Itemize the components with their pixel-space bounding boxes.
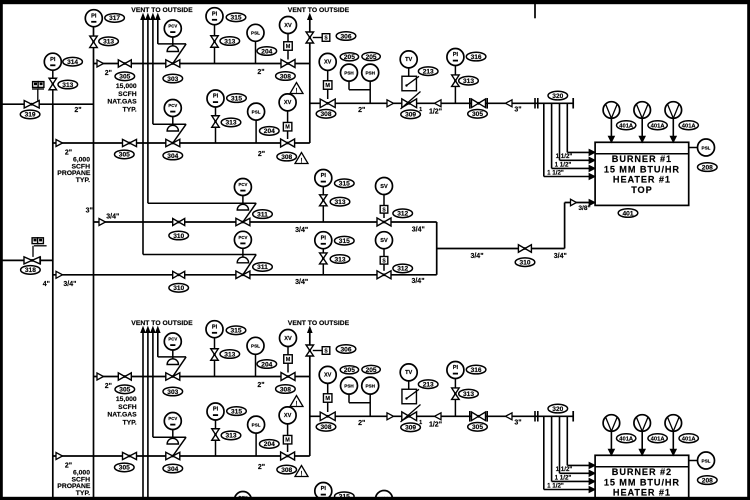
svg-text:312: 312 (397, 266, 408, 273)
tag 308 (line 1) (276, 72, 296, 81)
svg-text:401A: 401A (651, 124, 666, 130)
label 3/4 inch (middle 1 right) (412, 226, 425, 233)
valve XV 308 (combined) (319, 53, 336, 107)
wire middle line 2 (3/4 inch) (53, 274, 437, 276)
svg-text:401A: 401A (682, 124, 697, 130)
svg-text:304: 304 (167, 153, 178, 160)
instrument PI (line 2) (207, 90, 224, 116)
vent valve 306 (306, 32, 356, 43)
wire line 1 (2 inch nat gas) (94, 63, 310, 65)
label 3 inch (514, 107, 521, 114)
tag 204 (line 1) (257, 47, 277, 56)
tag 313 (below PI 314) (58, 80, 78, 89)
svg-text:310: 310 (173, 285, 184, 292)
svg-text:306: 306 (340, 33, 351, 40)
svg-text:VENT TO OUTSIDE: VENT TO OUTSIDE (131, 7, 193, 14)
svg-text:204: 204 (261, 48, 272, 55)
svg-text:15 MM BTU/HR: 15 MM BTU/HR (604, 477, 680, 487)
valve 313 (line 1) (211, 36, 219, 64)
label 3/8 inch (578, 205, 590, 212)
burner U401 text (BURNER #2) (604, 467, 680, 500)
text VENT TO OUTSIDE (riser) (288, 7, 350, 14)
warning triangle (line 1) (290, 83, 303, 95)
svg-text:SV: SV (380, 238, 388, 244)
control valve PCV 311 (upper) (148, 179, 256, 226)
tag 401A (2) (648, 121, 667, 130)
valve XV 308 (line 2) (279, 94, 296, 147)
flow arrow combined (387, 100, 394, 107)
control valve 319 (24, 82, 44, 108)
valve 305 (line 1) (118, 60, 131, 67)
instrument PI (middle lower) (315, 232, 332, 253)
flow arrow middle line 1 (99, 219, 106, 226)
tag 205 (left) (340, 53, 358, 61)
flow arrow line 2 (56, 140, 63, 147)
label 3 inch (header B) (86, 208, 93, 215)
vertical header A (4 inch) (52, 104, 54, 497)
svg-text:305: 305 (119, 74, 130, 81)
svg-text:PI: PI (213, 94, 219, 100)
svg-text:BURNER #2: BURNER #2 (612, 467, 672, 477)
instrument PSL 208 (689, 139, 715, 156)
svg-text:2": 2" (258, 151, 265, 158)
manifold drop 3 (560, 103, 596, 163)
burner U401 text (BURNER #1) (604, 154, 680, 195)
svg-text:2": 2" (65, 150, 72, 157)
svg-text:308: 308 (280, 73, 291, 80)
vent line 3 (152, 20, 154, 125)
spec break ticks (535, 98, 538, 109)
svg-text:313: 313 (334, 256, 345, 263)
svg-text:315: 315 (230, 15, 241, 22)
svg-text:313: 313 (463, 78, 474, 85)
instrument PI 316 (447, 49, 464, 76)
wire pilot riser 3/8 inch (565, 203, 590, 249)
label 2 inch (line 1) (105, 70, 112, 77)
tag 308 (combined) (316, 110, 336, 119)
svg-text:316: 316 (471, 54, 482, 61)
valve 313 (middle upper) (320, 195, 328, 222)
label 3/4 inch (middle 1 mid) (295, 227, 308, 234)
svg-text:310: 310 (519, 260, 530, 267)
svg-text:TYP.: TYP. (122, 106, 136, 113)
manifold drop 4 (567, 103, 595, 155)
tag 312 (lower) (393, 264, 413, 273)
tag 318 (21, 266, 41, 275)
svg-text:208: 208 (702, 164, 713, 171)
svg-text:XV: XV (324, 60, 332, 66)
labels 1 1/2 inch (547, 153, 572, 176)
tag 315 (line 1) (226, 13, 246, 22)
svg-text:HEATER #1: HEATER #1 (613, 175, 671, 185)
tag 319 (20, 110, 40, 119)
svg-text:M: M (325, 83, 330, 89)
svg-text:315: 315 (339, 181, 350, 188)
svg-text:NAT.GAS: NAT.GAS (107, 99, 137, 106)
instrument PI (middle upper) (315, 170, 332, 195)
svg-text:3/4": 3/4" (106, 214, 119, 221)
text VENT TO OUTSIDE (left vent stack) (131, 7, 193, 14)
svg-text:319: 319 (25, 112, 36, 119)
tag 305 (line 2) (115, 150, 135, 159)
valve 309 (401, 92, 421, 110)
note 6,000 SCFH PROPANE TYP. (57, 157, 91, 184)
valve 310 (outlet) (518, 245, 531, 253)
svg-text:PI: PI (91, 13, 97, 19)
tag 314 (63, 57, 83, 66)
control valve PCV 311 (lower) (143, 231, 256, 278)
instrument PSH (left) (341, 64, 371, 90)
svg-text:3/4": 3/4" (295, 279, 308, 286)
svg-text:PSL: PSL (702, 145, 711, 150)
control valve PCV 304 (153, 100, 186, 147)
svg-text:2": 2" (74, 107, 81, 114)
label 2 inch (combined) (358, 107, 365, 114)
tag 305 (combined) (468, 110, 488, 119)
svg-text:SV: SV (380, 184, 388, 190)
label 2 inch (line 2 right) (258, 151, 265, 158)
flow arrow pilot (571, 199, 577, 206)
tag 310 (outlet) (515, 258, 535, 267)
svg-text:PI: PI (453, 52, 459, 58)
vent line arrows (141, 14, 160, 20)
flame arrestor 3 (665, 102, 682, 143)
label 1/2 inch (429, 109, 442, 116)
vent line 1 (142, 20, 144, 255)
tag 401A (1) (617, 121, 636, 130)
valve 310 (middle 1) (173, 219, 185, 226)
tag 311 (upper) (253, 210, 273, 219)
svg-text:PCV: PCV (238, 235, 247, 240)
wire middle join (436, 222, 438, 275)
tag 315 (middle upper) (335, 179, 355, 188)
tag 313 (below PI 317) (99, 37, 119, 46)
svg-text:310: 310 (173, 233, 184, 240)
wire middle outlet (437, 248, 565, 250)
wire line 2 (2 inch propane) (53, 142, 310, 144)
label 2 inch (line 1 right) (257, 69, 264, 76)
svg-text:15 MM BTU/HR: 15 MM BTU/HR (604, 164, 680, 174)
svg-text:TYP.: TYP. (76, 177, 90, 184)
tag 401 (618, 209, 638, 218)
pilot arrow into burner (589, 200, 595, 206)
instrument PSL 204 (line 1) (247, 24, 264, 63)
svg-text:BURNER #1: BURNER #1 (612, 154, 672, 164)
valve 313 (combined) (452, 75, 460, 103)
flow arrow (after 309) (435, 100, 442, 107)
svg-text:3/4": 3/4" (412, 226, 425, 233)
svg-text:309: 309 (405, 112, 416, 119)
svg-text:311: 311 (257, 211, 268, 218)
svg-text:1: 1 (419, 107, 422, 113)
svg-text:PSH: PSH (344, 70, 354, 75)
wire middle line 1 (3/4 inch) (94, 221, 437, 223)
svg-text:PI: PI (212, 11, 218, 17)
label 2 inch (line 2) (65, 150, 72, 157)
svg-text:2": 2" (257, 69, 264, 76)
svg-text:3/4": 3/4" (470, 253, 483, 260)
svg-text:!: ! (301, 158, 303, 164)
svg-text:PCV: PCV (238, 182, 247, 187)
svg-text:308: 308 (281, 154, 292, 161)
svg-text:314: 314 (67, 59, 78, 66)
svg-text:311: 311 (257, 264, 268, 271)
tag 315 (line 2) (227, 94, 247, 103)
svg-text:401: 401 (622, 210, 633, 217)
svg-text:PI: PI (50, 57, 56, 63)
svg-text:M: M (286, 44, 291, 50)
label 3/4 inch (middle 2 left) (63, 281, 76, 288)
valve 313 (below PI 317) (90, 36, 98, 48)
vent line 2 (147, 20, 149, 204)
instrument PI (line 1) (206, 8, 223, 36)
svg-text:PSH: PSH (365, 70, 375, 75)
tag 305 (line 1) (115, 72, 135, 81)
svg-text:PI: PI (321, 173, 327, 179)
instrument PI 317 (85, 10, 102, 27)
svg-text:205: 205 (366, 54, 377, 61)
svg-text:205: 205 (344, 54, 355, 61)
svg-text:PSL: PSL (251, 31, 260, 36)
svg-text:2": 2" (105, 70, 112, 77)
vertical header B (3 inch) (93, 27, 95, 497)
svg-text:305: 305 (119, 152, 130, 159)
label 3/4 inch (middle 2 mid) (295, 279, 308, 286)
svg-text:1 1/2": 1 1/2" (547, 169, 564, 176)
svg-text:1 1/2": 1 1/2" (555, 161, 572, 168)
tag 304 (163, 151, 183, 160)
svg-text:313: 313 (334, 199, 345, 206)
svg-text:1/2": 1/2" (429, 109, 442, 116)
flow arrow middle line 2 (56, 271, 63, 278)
svg-text:PCV: PCV (168, 24, 177, 29)
svg-text:3/4": 3/4" (554, 253, 567, 260)
svg-text:PCV: PCV (168, 103, 177, 108)
gas train 2 (heater 2, duplicate shifted down) (53, 320, 717, 500)
svg-text:401A: 401A (619, 124, 634, 130)
svg-text:!: ! (296, 88, 298, 94)
label 3/4 inch (middle 2 right) (411, 278, 424, 285)
tag 313 (middle upper) (330, 197, 350, 206)
flame arrestor 2 (634, 102, 651, 143)
svg-text:204: 204 (264, 128, 275, 135)
instrument PSH (right) (362, 64, 379, 103)
tag 317 (105, 14, 125, 23)
manifold drop 1 (544, 103, 595, 179)
svg-text:VENT TO OUTSIDE: VENT TO OUTSIDE (288, 7, 350, 14)
valve SV 312 (upper) (376, 178, 393, 227)
svg-text:320: 320 (552, 93, 563, 100)
label 4 inch (header A) (43, 281, 50, 288)
tag 308 (line 2) (277, 152, 297, 161)
svg-text:313: 313 (103, 39, 114, 46)
svg-text:3": 3" (86, 208, 93, 215)
tag 204 (line 2) (260, 127, 280, 136)
svg-text:213: 213 (423, 69, 434, 76)
tag 311 (lower) (253, 263, 273, 272)
control valve PCV 303 (158, 20, 186, 67)
tag 313 (line 1) (220, 37, 240, 46)
instrument PSL 204 (line 2) (248, 103, 265, 143)
vent riser (308, 14, 312, 143)
svg-text:305: 305 (472, 111, 483, 118)
label 3/4 inch (outlet left) (470, 253, 483, 260)
svg-text:318: 318 (25, 267, 36, 274)
valve 313 (below PI 314) (49, 78, 57, 104)
svg-text:XV: XV (284, 23, 292, 29)
burner box (595, 142, 689, 205)
control valve TV 213 (400, 51, 419, 91)
svg-text:TOP: TOP (631, 185, 652, 195)
label 3/4 inch (middle 1 left) (106, 214, 119, 221)
svg-text:313: 313 (62, 82, 73, 89)
label 2 inch (supply) (74, 107, 81, 114)
tag 310 (middle 2) (169, 284, 189, 293)
border stub line (534, 3, 536, 18)
valve 313 (line 2) (212, 116, 220, 143)
warning triangle (line 2) (295, 153, 308, 165)
svg-text:HEATER #1: HEATER #1 (613, 488, 671, 498)
wire supply line 319 (3, 103, 94, 105)
svg-text:15,000: 15,000 (116, 83, 137, 90)
valve 310 (middle 2) (173, 271, 185, 278)
svg-text:313: 313 (225, 120, 236, 127)
svg-text:315: 315 (339, 238, 350, 245)
valve 305 (combined) (470, 98, 487, 109)
gas train 1 (heater 1 top) (53, 7, 717, 292)
tag 208 (698, 163, 718, 172)
tag 312 (upper) (393, 209, 413, 218)
control valve 318 (24, 238, 47, 265)
svg-text:315: 315 (231, 95, 242, 102)
svg-text:1 1/2": 1 1/2" (556, 153, 573, 160)
valve SV 312 (lower) (376, 232, 393, 279)
svg-text:PI: PI (321, 235, 327, 241)
tag 310 (middle 1) (169, 231, 189, 240)
svg-text:312: 312 (397, 211, 408, 218)
tag 320 (548, 91, 568, 100)
vent line 4 (157, 20, 159, 44)
instrument PI 314 (44, 53, 61, 78)
tag 205 (right) (362, 52, 380, 60)
tag 316 (466, 52, 486, 61)
label 3/4 inch (outlet right) (554, 253, 567, 260)
svg-text:3": 3" (514, 107, 521, 114)
flow arrow line 1 (97, 60, 104, 67)
svg-text:4": 4" (43, 281, 50, 288)
valve XV 308 (line 1) (280, 17, 297, 68)
svg-text:3/4": 3/4" (63, 281, 76, 288)
wire supply line 318 (3, 259, 53, 261)
tag 313 (middle lower) (330, 255, 350, 264)
valve 313 (middle lower) (320, 253, 328, 275)
tag 303 (163, 74, 183, 83)
manifold drop 2 (552, 103, 596, 171)
note 15,000 SCFH NAT.GAS TYP. (107, 83, 137, 113)
svg-text:SCFH: SCFH (118, 91, 137, 98)
svg-text:TV: TV (405, 57, 412, 63)
svg-text:313: 313 (224, 38, 235, 45)
svg-text:317: 317 (109, 15, 120, 22)
svg-text:3/4": 3/4" (295, 227, 308, 234)
svg-text:M: M (285, 125, 290, 131)
wire combined line (310, 102, 573, 104)
tag 315 (middle lower) (335, 236, 355, 245)
tag 401A (3) (679, 121, 698, 130)
flame arrestor 1 (603, 102, 620, 143)
svg-text:PSL: PSL (252, 109, 261, 114)
svg-text:XV: XV (284, 100, 292, 106)
svg-text:2": 2" (358, 107, 365, 114)
tag 213 (418, 67, 438, 76)
svg-text:303: 303 (167, 76, 178, 83)
tag 313 (line 2) (221, 118, 241, 127)
svg-text:308: 308 (320, 111, 331, 118)
tag 309 (401, 107, 422, 119)
flow arrow (3 inch) (506, 100, 513, 107)
svg-text:3/4": 3/4" (411, 278, 424, 285)
valve 305 (line 2) (123, 139, 137, 146)
tag 313 (combined) (459, 76, 479, 85)
manifold end tick (572, 98, 574, 109)
